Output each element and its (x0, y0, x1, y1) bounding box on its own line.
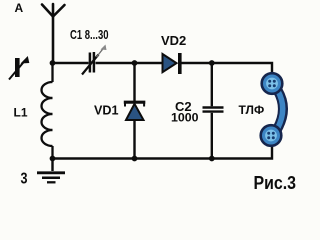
node: VD1 top junction (132, 60, 138, 66)
wire top: junction to C1 left plate (53, 62, 89, 64)
headband (277, 91, 283, 130)
inductor L1 (42, 63, 53, 159)
svg-text:ТЛФ: ТЛФ (239, 103, 265, 117)
svg-text:VD2: VD2 (161, 33, 186, 48)
node: antenna/coil/C1 junction (50, 60, 56, 66)
svg-text:C1 8...30: C1 8...30 (70, 27, 109, 42)
wire top: C2 junction to headphones corner (212, 63, 272, 74)
arrester arrow symbol (9, 56, 29, 80)
antenna (42, 4, 65, 63)
wire top: C1 to VD2 (96, 62, 163, 64)
wire bottom (53, 146, 273, 159)
svg-text:A: A (15, 1, 24, 15)
ground (37, 159, 65, 183)
earpiece bottom (261, 125, 282, 146)
diode VD2 (163, 53, 180, 74)
capacitor C1 (variable) (82, 45, 107, 75)
svg-text:VD1: VD1 (94, 103, 119, 117)
node: ground junction (50, 156, 56, 162)
svg-text:1000: 1000 (171, 111, 199, 125)
node: C2 top junction (209, 60, 215, 66)
diode VD1 (124, 63, 146, 159)
earpiece top (262, 73, 283, 94)
svg-text:Рис.3: Рис.3 (254, 173, 297, 193)
headphones ТЛФ (261, 73, 283, 146)
node: VD1 bottom junction (132, 156, 138, 162)
svg-text:3: 3 (21, 170, 28, 187)
wire top: VD2 to C2 junction (182, 62, 212, 64)
svg-text:L1: L1 (14, 105, 28, 119)
node: C2 bottom junction (209, 156, 215, 162)
capacitor C2 (203, 63, 224, 159)
